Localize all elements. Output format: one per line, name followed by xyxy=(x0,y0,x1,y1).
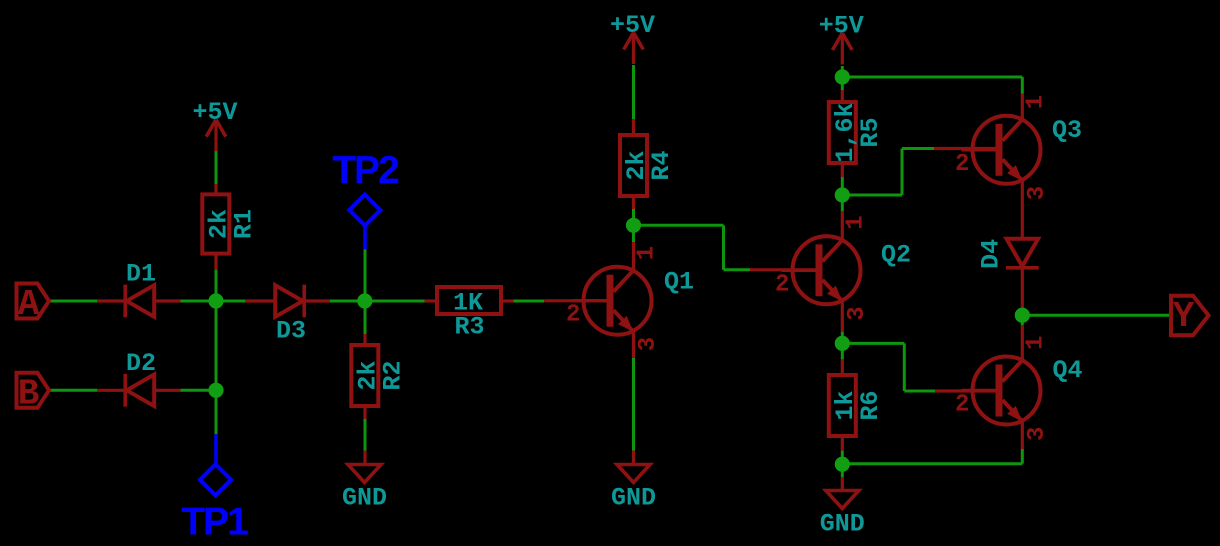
svg-text:Q4: Q4 xyxy=(1053,356,1083,385)
svg-text:3: 3 xyxy=(1024,427,1051,441)
svg-text:2: 2 xyxy=(566,302,580,329)
svg-text:R1: R1 xyxy=(229,209,258,239)
svg-text:2: 2 xyxy=(955,151,969,178)
svg-text:3: 3 xyxy=(1024,186,1051,200)
svg-text:+5V: +5V xyxy=(819,12,864,41)
svg-text:2: 2 xyxy=(955,392,969,419)
svg-text:D3: D3 xyxy=(276,317,306,346)
svg-text:R4: R4 xyxy=(647,150,676,180)
svg-text:D4: D4 xyxy=(977,239,1006,269)
svg-text:B: B xyxy=(18,373,40,414)
svg-text:+5V: +5V xyxy=(192,98,237,127)
svg-text:1: 1 xyxy=(1023,336,1050,350)
svg-text:A: A xyxy=(18,284,40,325)
svg-text:1: 1 xyxy=(634,246,661,260)
svg-text:3: 3 xyxy=(635,337,662,351)
svg-text:TP2: TP2 xyxy=(332,149,399,192)
svg-text:Y: Y xyxy=(1173,296,1195,337)
svg-text:Q2: Q2 xyxy=(881,241,911,270)
svg-text:2: 2 xyxy=(775,271,789,298)
svg-text:Q3: Q3 xyxy=(1052,116,1082,145)
svg-text:TP1: TP1 xyxy=(181,501,248,544)
svg-text:1: 1 xyxy=(1023,95,1050,109)
svg-text:D1: D1 xyxy=(126,260,156,289)
svg-text:GND: GND xyxy=(820,509,865,538)
svg-text:GND: GND xyxy=(342,483,387,512)
svg-text:+5V: +5V xyxy=(610,11,655,40)
svg-text:R6: R6 xyxy=(856,390,885,420)
svg-text:GND: GND xyxy=(611,483,656,512)
svg-text:R3: R3 xyxy=(454,313,484,342)
svg-text:R5: R5 xyxy=(856,117,885,147)
svg-text:3: 3 xyxy=(844,306,871,320)
svg-text:1: 1 xyxy=(843,215,870,229)
svg-text:R2: R2 xyxy=(378,360,407,390)
svg-text:D2: D2 xyxy=(126,349,156,378)
svg-text:Q1: Q1 xyxy=(664,268,694,297)
